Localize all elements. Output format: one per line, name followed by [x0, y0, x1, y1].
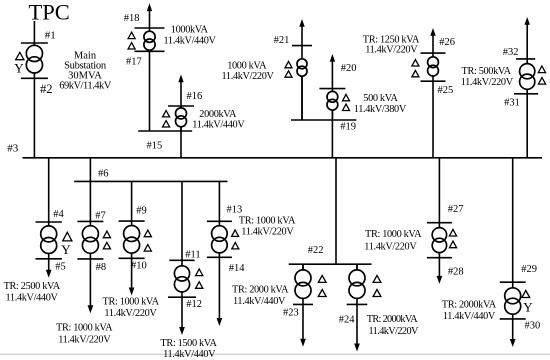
svg-text:TR: 2000kVA: TR: 2000kVA	[367, 314, 418, 325]
wire #21 down to bus #19	[301, 76, 303, 120]
wire bus #22 to xfmr #23	[302, 264, 304, 270]
main 11.4kV bus (#3/#15)	[23, 157, 543, 159]
svg-text:TR: 2000kVA: TR: 2000kVA	[442, 299, 497, 310]
bus #7 tick	[77, 220, 103, 222]
load arrow at node #12	[179, 297, 185, 335]
wire #25 to main bus	[432, 81, 434, 158]
transformer 1000kVA #27/#28	[432, 223, 446, 258]
bus #18 tick	[135, 27, 165, 29]
svg-text:11.4kV/220V: 11.4kV/220V	[364, 241, 417, 252]
svg-text:#1: #1	[45, 30, 56, 42]
bus #17 tick	[135, 50, 165, 52]
wire branch bus down to main bus	[180, 131, 182, 158]
bus #22	[289, 263, 372, 265]
transformer 1000kVA #13/#14	[212, 221, 228, 257]
svg-text:11.4kV/220V: 11.4kV/220V	[365, 45, 418, 56]
svg-text:11.4kV/220V: 11.4kV/220V	[58, 334, 111, 345]
wire main bus down to bus #6	[89, 158, 91, 182]
load arrow at node #18	[147, 3, 152, 28]
load arrow at node #5	[46, 259, 52, 278]
wire main bus down to bus #22	[335, 158, 337, 264]
svg-text:11.4kV/220V: 11.4kV/220V	[461, 77, 514, 88]
delta symbol #16 upper	[163, 111, 170, 117]
bus #30 tick	[500, 318, 526, 320]
load arrow at node #30	[510, 319, 516, 347]
svg-text:TPC: TPC	[29, 0, 70, 25]
wire bus #6 down to #13	[218, 181, 220, 221]
transformer 1000kVA #18/#17	[144, 28, 155, 51]
svg-text:#21: #21	[274, 35, 290, 46]
svg-text:Y: Y	[14, 61, 24, 76]
svg-text:TR: 2500 kVA: TR: 2500 kVA	[4, 281, 61, 292]
svg-text:#15: #15	[147, 140, 163, 151]
bus #8 tick	[77, 258, 103, 260]
load arrow at node #28	[437, 258, 443, 284]
transformer 500kVA #32/#31	[520, 59, 535, 94]
svg-text:11.4kV/440V: 11.4kV/440V	[163, 349, 216, 360]
bus #27 tick	[427, 222, 452, 224]
bus #6	[74, 180, 227, 182]
svg-text:11.4kV/220V: 11.4kV/220V	[369, 326, 420, 337]
delta symbol #27 lower	[449, 241, 456, 248]
delta symbol #18 lower	[128, 43, 135, 49]
delta symbol #16 lower	[163, 121, 170, 127]
svg-text:#11: #11	[185, 250, 200, 261]
wire main bus down to #29	[512, 158, 514, 282]
delta symbol #4	[63, 232, 72, 241]
transformer 1000kVA #9/#10	[124, 221, 140, 258]
delta symbol #9 upper	[144, 230, 151, 237]
svg-text:Y: Y	[523, 300, 533, 315]
svg-text:#4: #4	[53, 209, 64, 220]
delta symbol #7 upper	[103, 231, 110, 238]
bus #24 tick	[347, 303, 368, 305]
svg-text:11.4kV/440V: 11.4kV/440V	[192, 119, 245, 130]
svg-text:500 kVA: 500 kVA	[363, 93, 398, 104]
transformer Main 30MVA	[26, 43, 42, 78]
load arrow at node #26	[430, 28, 435, 53]
wire bus #22 to xfmr #24	[356, 264, 358, 270]
wire bus #19 down to main bus	[331, 120, 333, 158]
delta symbol #7 lower	[103, 242, 110, 249]
svg-text:11.4kV/380V: 11.4kV/380V	[354, 104, 407, 115]
faint scan artifact line	[0, 353, 550, 355]
svg-text:#6: #6	[98, 169, 109, 180]
delta symbol #11 upper	[196, 269, 203, 276]
svg-text:11.4kV/440V: 11.4kV/440V	[233, 296, 286, 307]
svg-text:TR: 2000 kVA: TR: 2000 kVA	[232, 285, 289, 296]
delta symbol #20 upper	[343, 94, 350, 100]
svg-text:#8: #8	[96, 262, 107, 273]
load arrow at node #24	[354, 304, 360, 351]
svg-text:#12: #12	[186, 299, 202, 310]
transformer 2000kVA #29/#30	[505, 282, 521, 319]
wire #20 to bus #19	[331, 110, 333, 120]
transformer 2000kVA #23	[295, 264, 311, 304]
wire bus #6 down to #11	[181, 181, 183, 260]
svg-text:#3: #3	[7, 142, 19, 154]
delta symbol #24 upper	[373, 275, 381, 282]
transformer 2500kVA #4/#5	[41, 222, 57, 259]
bus #14 tick	[207, 256, 232, 258]
svg-text:11.4kV/220V: 11.4kV/220V	[104, 308, 157, 319]
svg-text:#32: #32	[503, 47, 519, 58]
bus #1 tick	[21, 42, 48, 44]
delta symbol #26 upper	[412, 60, 419, 66]
svg-text:#28: #28	[448, 266, 464, 277]
bus #20 tick	[319, 88, 345, 90]
load arrow at node #8	[88, 259, 94, 313]
delta symbol #20 lower	[343, 104, 350, 110]
svg-text:11.4kV/440V: 11.4kV/440V	[164, 36, 217, 47]
delta symbol #21 upper	[285, 61, 292, 67]
bus #13 tick	[207, 220, 232, 222]
svg-text:11.4kV/220V: 11.4kV/220V	[241, 227, 294, 238]
svg-text:#2: #2	[40, 82, 53, 96]
bus #28 tick	[427, 257, 452, 259]
svg-text:#10: #10	[131, 260, 147, 271]
delta symbol #18 upper	[128, 32, 135, 38]
delta symbol #21 lower	[285, 71, 292, 77]
load arrow at node #23	[300, 304, 306, 346]
svg-text:#22: #22	[308, 245, 324, 256]
delta symbol #23 lower	[318, 290, 326, 297]
bus #5 tick	[36, 258, 62, 260]
svg-text:#14: #14	[229, 263, 246, 274]
svg-text:#26: #26	[439, 37, 455, 48]
bus #10 tick	[119, 257, 145, 259]
svg-text:69kV/11.4kV: 69kV/11.4kV	[59, 81, 111, 92]
delta symbol #9 lower	[144, 245, 151, 252]
svg-text:Y: Y	[61, 242, 71, 257]
wire #2 to main bus #3	[33, 78, 35, 158]
svg-text:#25: #25	[438, 85, 454, 96]
svg-text:TR: 1000 kVA: TR: 1000 kVA	[365, 229, 422, 240]
svg-text:#7: #7	[95, 211, 106, 222]
svg-text:#31: #31	[504, 98, 520, 109]
svg-text:#30: #30	[525, 321, 541, 332]
wire bus #6 down to #7	[89, 181, 91, 221]
svg-text:#13: #13	[227, 204, 243, 215]
delta symbol #32 upper	[538, 66, 545, 73]
svg-text:#20: #20	[341, 63, 357, 74]
svg-text:TR: 1000 kVA: TR: 1000 kVA	[239, 215, 296, 226]
delta symbol #13 upper	[232, 230, 239, 236]
load arrow at node #32	[525, 17, 530, 59]
bus #32 tick	[516, 58, 535, 60]
transformer 1000kVA #7/#8	[82, 221, 98, 259]
svg-text:#29: #29	[521, 264, 537, 275]
svg-text:#17: #17	[126, 57, 142, 68]
wire #17 down to bus 15 branch	[149, 51, 151, 131]
svg-text:1000kVA: 1000kVA	[171, 24, 209, 35]
svg-text:30MVA: 30MVA	[68, 70, 102, 81]
svg-text:11.4kV/220V: 11.4kV/220V	[222, 71, 275, 82]
wire main bus down to #27	[438, 158, 440, 223]
delta symbol #27 upper	[449, 229, 456, 236]
wire bus #6 down to #9	[131, 181, 133, 221]
svg-text:11.4kV/440V: 11.4kV/440V	[6, 293, 59, 304]
transformer 1500kVA #11/#12	[174, 260, 189, 297]
load arrow at node #14	[217, 257, 223, 326]
delta symbol #23 upper	[318, 275, 326, 282]
bus #16 tick	[168, 105, 194, 107]
wire #16 to branch bus	[180, 127, 182, 131]
bus #25 tick	[421, 80, 446, 82]
svg-text:11.4kV/440V: 11.4kV/440V	[443, 311, 496, 322]
bus #11 tick	[169, 259, 194, 261]
delta symbol #13 lower	[232, 243, 239, 249]
svg-text:#19: #19	[340, 121, 356, 132]
bus #26 tick	[421, 52, 446, 54]
svg-text:#27: #27	[448, 204, 464, 215]
bus #2 tick	[21, 77, 48, 79]
delta symbol #29	[522, 291, 530, 298]
bus #12 tick	[168, 296, 196, 298]
load arrow at node #16	[178, 75, 183, 107]
delta winding symbol (main primary)	[16, 52, 24, 59]
transformer 2000kVA #16	[176, 106, 187, 131]
svg-text:TR: 1000 kVA: TR: 1000 kVA	[56, 322, 113, 333]
bus #29 tick	[500, 281, 526, 283]
svg-text:#5: #5	[55, 262, 66, 273]
svg-text:TR: 1000 kVA: TR: 1000 kVA	[103, 296, 160, 307]
delta symbol #32 lower	[538, 78, 545, 85]
bus #4 tick	[36, 221, 62, 223]
svg-text:#24: #24	[339, 315, 356, 326]
transformer 500kVA #20	[327, 89, 338, 120]
wire TPC feeder to bus #1	[33, 21, 35, 43]
transformer 1250kVA #26/#25	[428, 53, 439, 81]
transformer 2000kVA #24	[349, 264, 365, 304]
wire main bus down to #4	[48, 158, 50, 222]
transformer 1000kVA #21	[297, 46, 307, 120]
delta symbol #24 lower	[373, 290, 381, 297]
bus #23 tick	[293, 303, 313, 305]
load arrow at node #10	[129, 258, 135, 295]
bus #21 tick	[292, 45, 312, 47]
svg-text:TR: 500kVA: TR: 500kVA	[462, 66, 512, 77]
bus #19	[291, 119, 356, 121]
delta symbol #26 lower	[412, 70, 419, 76]
svg-text:#23: #23	[283, 308, 299, 319]
svg-text:#16: #16	[187, 91, 203, 102]
branch bus joining #17 and #16	[138, 130, 192, 132]
svg-text:#18: #18	[124, 13, 140, 24]
load arrow at node #20	[330, 54, 335, 89]
wire #31 to main bus	[526, 94, 528, 158]
svg-text:#9: #9	[136, 206, 147, 217]
delta symbol #11 lower	[196, 282, 203, 289]
bus #31 tick	[514, 93, 538, 95]
bus #9 tick	[119, 220, 145, 222]
load arrow at node #21	[299, 19, 304, 46]
svg-text:TR: 1500 kVA: TR: 1500 kVA	[160, 338, 217, 349]
